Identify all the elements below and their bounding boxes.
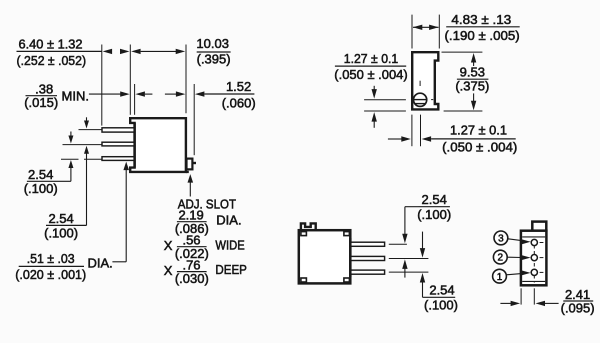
svg-text:(.100): (.100) <box>44 225 78 240</box>
svg-text:(.050 ± .004): (.050 ± .004) <box>334 67 407 82</box>
svg-text:MIN.: MIN. <box>62 88 89 103</box>
svg-text:(.095): (.095) <box>561 301 595 316</box>
svg-text:DIA.: DIA. <box>88 255 113 270</box>
svg-text:DIA.: DIA. <box>216 213 241 228</box>
svg-text:(.252 ± .052): (.252 ± .052) <box>17 53 87 68</box>
svg-text:1.27 ± 0.1: 1.27 ± 0.1 <box>450 123 507 138</box>
svg-text:2.54: 2.54 <box>28 167 53 182</box>
svg-text:9.53: 9.53 <box>460 65 485 80</box>
svg-text:(.100): (.100) <box>24 181 58 196</box>
svg-text:1: 1 <box>497 272 503 283</box>
svg-text:.51 ± .03: .51 ± .03 <box>27 251 75 266</box>
svg-text:(.395): (.395) <box>197 52 231 67</box>
svg-text:(.100): (.100) <box>424 297 458 312</box>
svg-text:2.54: 2.54 <box>48 211 73 226</box>
svg-text:2: 2 <box>498 253 504 264</box>
svg-text:10.03: 10.03 <box>196 36 229 51</box>
svg-text:4.83 ± .13: 4.83 ± .13 <box>451 12 511 27</box>
svg-text:(.190 ± .005): (.190 ± .005) <box>445 28 520 43</box>
svg-text:(.100): (.100) <box>417 207 451 222</box>
svg-text:6.40 ± 1.32: 6.40 ± 1.32 <box>19 37 83 52</box>
svg-text:(.020 ± .001): (.020 ± .001) <box>15 267 86 282</box>
svg-text:(.030): (.030) <box>175 271 209 286</box>
svg-text:(.015): (.015) <box>24 95 58 110</box>
svg-text:1.52: 1.52 <box>226 79 251 94</box>
svg-text:2.54: 2.54 <box>422 192 447 207</box>
svg-text:(.050 ± .004): (.050 ± .004) <box>442 139 517 154</box>
svg-text:DEEP: DEEP <box>215 262 247 277</box>
svg-text:1.27 ± 0.1: 1.27 ± 0.1 <box>344 51 399 66</box>
svg-text:X: X <box>164 238 173 253</box>
svg-text:2.54: 2.54 <box>429 282 454 297</box>
svg-text:(.060): (.060) <box>222 95 256 110</box>
svg-text:X: X <box>164 263 173 278</box>
svg-text:WIDE: WIDE <box>215 238 245 253</box>
svg-text:3: 3 <box>498 234 504 245</box>
svg-text:(.375): (.375) <box>455 79 489 94</box>
